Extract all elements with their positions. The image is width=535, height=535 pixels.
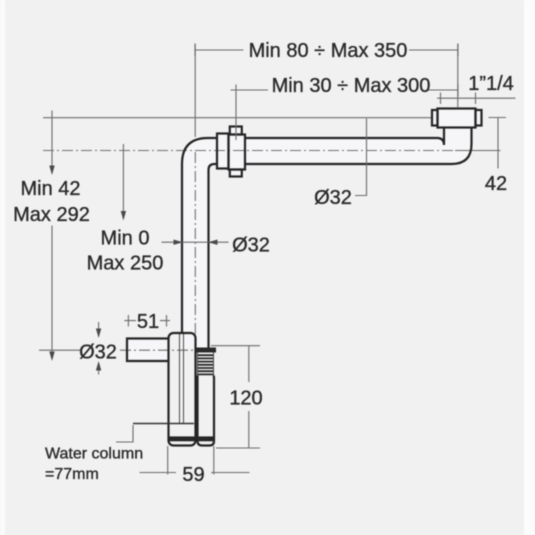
wire inlet centerline extension left — [39, 349, 80, 351]
wire extension elbow nut axis — [235, 85, 237, 141]
wire extension wall nut axis — [457, 44, 459, 109]
elbow compression nut — [229, 127, 246, 177]
bottle trap body — [169, 333, 196, 446]
svg-text:Min 0: Min 0 — [101, 228, 150, 250]
wall connection nut 1"1/4 — [432, 109, 482, 128]
svg-text:51: 51 — [137, 311, 159, 333]
dim line 42 — [489, 118, 507, 169]
svg-text:1”1/4: 1”1/4 — [468, 73, 514, 95]
bottle bottom cap band — [169, 436, 195, 441]
dim line Min 80 Max 350 — [195, 44, 458, 57]
wire diameter 32 inlet lower shaft — [98, 369, 100, 375]
pipe left elbow inner edge — [209, 164, 218, 348]
inlet pipe outline — [127, 339, 169, 362]
wire horizontal pipe centerline — [43, 150, 455, 152]
svg-text:Min 80 ÷ Max 350: Min 80 ÷ Max 350 — [249, 40, 408, 62]
trap thread ridges — [198, 355, 214, 374]
wire extension elbow axis — [194, 44, 196, 138]
svg-text:42: 42 — [485, 173, 507, 195]
dim line 59 — [140, 446, 250, 475]
svg-text:Ø32: Ø32 — [232, 235, 270, 257]
svg-text:Min 42: Min 42 — [20, 178, 80, 200]
elbow compression ring — [217, 134, 229, 169]
arrow Min 42 upper — [49, 166, 54, 176]
trap cup outline — [198, 376, 215, 446]
svg-text:Max 292: Max 292 — [13, 204, 90, 226]
svg-text:Water column: Water column — [45, 446, 143, 463]
pipe left elbow outer edge — [182, 138, 217, 333]
svg-text:Max 250: Max 250 — [87, 253, 164, 275]
arrow Min 0 — [121, 211, 126, 221]
arrow diameter left — [174, 240, 184, 245]
wire centerline extension right — [455, 150, 501, 152]
dim line diameter 32 vertical pipe — [162, 241, 229, 243]
pipe straight bottom edge — [245, 163, 452, 165]
dip tube hidden lines — [180, 334, 184, 424]
wire inlet pipe centerline — [120, 349, 194, 351]
arrow diameter 32 inlet down — [96, 329, 101, 339]
svg-text:Min 30 ÷ Max 300: Min 30 ÷ Max 300 — [272, 75, 431, 97]
dim line 120 — [211, 346, 260, 448]
cup bottom cap band — [198, 436, 214, 441]
dim line Min 0 Max 250 — [122, 144, 124, 212]
pipe right bend outer edge — [452, 128, 472, 165]
arrow Min 42 lower — [49, 352, 54, 362]
svg-text:Ø32: Ø32 — [314, 187, 352, 209]
svg-text:=77mm: =77mm — [45, 466, 99, 483]
svg-text:Ø32: Ø32 — [79, 342, 117, 364]
dim line 51 — [124, 315, 170, 327]
wire vertical pipe centerline — [194, 152, 196, 345]
dim line Min 30 Max 300 — [231, 84, 459, 97]
wire top reference line — [43, 117, 432, 119]
pipe right bend inner edge — [437, 128, 444, 146]
water level line — [133, 423, 194, 425]
trap thread side edges — [198, 353, 214, 376]
wire water column leader — [116, 425, 133, 442]
trap threaded cap band — [196, 348, 217, 353]
pipe run interior fill — [182, 128, 472, 349]
arrow diameter right — [208, 240, 218, 245]
inlet pipe interior fill — [127, 339, 169, 362]
wire leader diameter 32 top pipe — [355, 119, 367, 196]
dim line 1"1/4 — [437, 93, 516, 105]
wire diameter 32 inlet upper shaft — [98, 322, 100, 330]
svg-text:59: 59 — [182, 464, 204, 486]
svg-text:120: 120 — [229, 388, 262, 410]
elbow ring interior fill — [217, 134, 229, 169]
elbow nut interior fill — [229, 127, 246, 177]
arrow diameter 32 inlet up — [96, 361, 101, 371]
dim line Min 42 Max 292 — [51, 111, 53, 354]
wall nut interior fill — [432, 109, 482, 128]
pipe straight top edge — [245, 137, 437, 139]
